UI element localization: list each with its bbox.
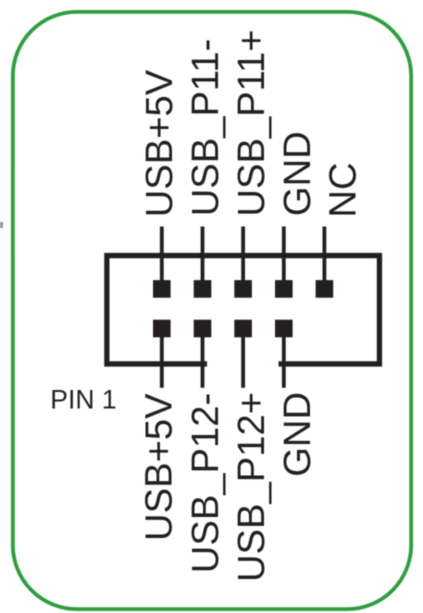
svg-text:USB_P12+: USB_P12+: [230, 392, 273, 582]
svg-text:GND: GND: [276, 392, 319, 477]
svg-text:USB+5V: USB+5V: [138, 69, 181, 217]
svg-text:USB_P11+: USB_P11+: [230, 29, 273, 216]
svg-text:USB+5V: USB+5V: [138, 393, 181, 541]
svg-text:USB_P11-: USB_P11-: [184, 39, 227, 217]
svg-text:USB_P12-: USB_P12-: [184, 393, 227, 573]
svg-text:NC: NC: [322, 162, 365, 217]
svg-text:GND: GND: [276, 131, 319, 216]
svg-text:PIN 1: PIN 1: [50, 384, 116, 414]
